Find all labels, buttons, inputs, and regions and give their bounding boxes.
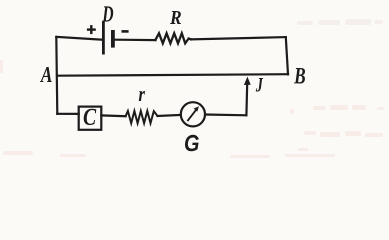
wire resistor R to top-right corner — [191, 37, 286, 39]
resistor r — [126, 111, 158, 123]
label J — [256, 78, 263, 92]
galvanometer G circle — [181, 102, 205, 126]
galvanometer needle — [187, 106, 199, 121]
minus sign — [122, 30, 129, 33]
wire bottom from A-vertical to cell C — [57, 113, 78, 115]
wire battery to resistor R — [115, 39, 156, 42]
label G — [185, 135, 199, 152]
label B — [294, 68, 305, 84]
wire cell C to resistor r — [101, 114, 125, 117]
scan artifact smudges — [0, 19, 384, 158]
wire A to B (potentiometer) — [57, 74, 288, 76]
wire galvanometer to jockey corner — [205, 113, 246, 116]
wire top-left segment — [56, 37, 102, 40]
resistor R — [155, 33, 191, 43]
label r — [139, 91, 145, 101]
wire resistor r to galvanometer G — [158, 115, 181, 116]
plus sign — [87, 25, 96, 34]
cell C box — [79, 107, 102, 130]
label D — [102, 6, 113, 21]
jockey arrow head at J — [244, 77, 251, 85]
label C — [84, 109, 97, 125]
wire right vertical to B — [286, 37, 288, 74]
label R — [170, 11, 181, 24]
battery D long plate (+) — [102, 22, 105, 55]
battery D short plate (-) — [111, 30, 115, 48]
wire left vertical — [56, 37, 57, 114]
label A — [40, 67, 52, 82]
jockey arrow shaft — [245, 84, 248, 116]
